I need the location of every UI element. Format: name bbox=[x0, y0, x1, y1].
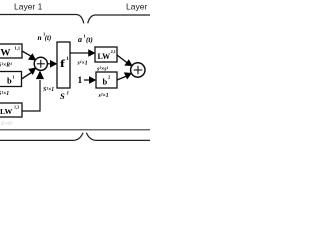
wire 1 to b2 with arrowhead bbox=[84, 79, 90, 81]
bottom bracket right (under Layer 2) bbox=[86, 133, 151, 141]
svg-text:1,1: 1,1 bbox=[15, 46, 21, 51]
wire sum1 to f1 with arrowhead bbox=[47, 63, 52, 65]
svg-text:(t): (t) bbox=[45, 35, 51, 42]
svg-text:b: b bbox=[103, 77, 108, 87]
svg-text:IW: IW bbox=[0, 48, 11, 58]
svg-text:Layer 2: Layer 2 bbox=[126, 1, 150, 11]
transfer function box f1 bbox=[57, 42, 70, 88]
svg-text:2,1: 2,1 bbox=[111, 49, 116, 54]
svg-text:s¹×1: s¹×1 bbox=[77, 61, 88, 67]
wire a1(t): f1 to LW2,1 with arrowhead bbox=[70, 52, 89, 54]
sum junction 2 bbox=[131, 63, 145, 77]
svg-text:s²×1: s²×1 bbox=[98, 93, 109, 99]
feedback wire a3(t) across bottom bbox=[0, 129, 150, 131]
weight box LW2,1 bbox=[95, 47, 117, 62]
svg-text:1,3: 1,3 bbox=[14, 105, 19, 110]
svg-text:S¹×1: S¹×1 bbox=[0, 91, 9, 97]
svg-text:b: b bbox=[7, 76, 12, 86]
wire LW2,1 to sum2 with arrowhead bbox=[117, 55, 128, 64]
top bracket right (over Layer 2) bbox=[88, 15, 151, 23]
arrowhead up into sum1 bbox=[37, 71, 44, 79]
svg-text:Layer 1: Layer 1 bbox=[14, 1, 43, 11]
svg-text:n: n bbox=[38, 33, 42, 42]
bias box b1 bbox=[0, 72, 22, 87]
svg-text:f: f bbox=[60, 57, 66, 70]
weight box IW1,1 bbox=[0, 44, 22, 58]
svg-text:a: a bbox=[78, 35, 82, 44]
weight box LW1,3 bbox=[0, 103, 22, 117]
svg-text:(t): (t) bbox=[86, 36, 93, 44]
svg-text:S¹×1: S¹×1 bbox=[43, 87, 54, 93]
sum junction 1 bbox=[34, 57, 47, 70]
svg-text:S: S bbox=[60, 91, 65, 101]
wire b2 to sum2 with arrowhead bbox=[117, 76, 128, 81]
bias box b2 bbox=[96, 72, 117, 88]
svg-text:LW: LW bbox=[98, 52, 111, 61]
top bracket left (over Layer 1) bbox=[0, 15, 84, 24]
svg-text:S¹×S³: S¹×S³ bbox=[1, 121, 13, 127]
wire LW1,3 to sum1 (right then up) bbox=[22, 80, 40, 111]
svg-text:S¹×R¹: S¹×R¹ bbox=[0, 63, 12, 69]
svg-text:1: 1 bbox=[78, 76, 83, 86]
wire b1 to sum1 with arrowhead bbox=[22, 72, 34, 80]
svg-text:1: 1 bbox=[67, 92, 70, 97]
bottom bracket left (under Layer 1) bbox=[0, 133, 83, 141]
wire IW1,1 to sum1 with arrowhead bbox=[22, 51, 33, 57]
svg-text:LW: LW bbox=[0, 107, 12, 116]
